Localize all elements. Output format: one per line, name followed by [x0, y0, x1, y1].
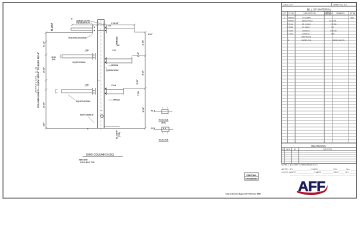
svg-text:L4X4X1/4: L4X4X1/4 [302, 30, 310, 32]
svg-text:(W8X31 COL. C-3): (W8X31 COL. C-3) [35, 66, 37, 93]
svg-text:PL 1/4X4: PL 1/4X4 [302, 24, 311, 26]
svg-text:PC MK: PC MK [289, 13, 295, 15]
svg-text:CUST. APPD. ____________ DATE: CUST. APPD. ____________ DATE ________ R… [282, 171, 358, 174]
svg-text:2′-8″: 2′-8″ [137, 79, 139, 84]
svg-text:1′-1″: 1′-1″ [43, 41, 45, 47]
svg-text:JOB No. 7177: JOB No. 7177 [283, 4, 293, 6]
svg-text:3′-0″: 3′-0″ [43, 102, 45, 108]
svg-text:3′-0″: 3′-0″ [43, 67, 45, 73]
svg-text:(NTS): (NTS) [162, 122, 166, 124]
svg-text:W8X24: W8X24 [113, 100, 120, 102]
svg-text:W8X24: W8X24 [117, 35, 119, 44]
svg-text:W/ (4) 3/4″X2-1/4″ A325N B.: W/ (4) 3/4″X2-1/4″ A325N B. [76, 100, 91, 103]
svg-text:7 1/2: 7 1/2 [112, 50, 116, 52]
svg-text:W8X31: W8X31 [288, 17, 295, 19]
svg-text:1′-10 5/8″: 1′-10 5/8″ [111, 23, 119, 25]
svg-text:W8X31: W8X31 [288, 21, 294, 23]
svg-text:PL3/8: PL3/8 [289, 27, 294, 29]
svg-text:FT - IN: FT - IN [326, 14, 332, 16]
svg-text:10″: 10″ [43, 122, 45, 126]
svg-text:DECAL: DECAL [247, 174, 258, 177]
svg-text:(2) Ø13/16 HOLES: (2) Ø13/16 HOLES [106, 70, 119, 72]
svg-text:EL. 111′-4″: EL. 111′-4″ [51, 23, 53, 31]
svg-text:7 1/2: 7 1/2 [138, 91, 140, 96]
svg-text:3′-4″: 3′-4″ [143, 70, 145, 75]
svg-text:2′-8″: 2′-8″ [143, 107, 145, 112]
svg-text:City of America Approved Fabri: City of America Approved Fabricator #807 [226, 192, 262, 195]
svg-text:DWG COLUMN 3 (SC): DWG COLUMN 3 (SC) [86, 152, 114, 156]
svg-text:SHOP BOLTS: SHOP BOLTS [302, 37, 312, 39]
svg-text:DRAWING: DRAWING [246, 178, 259, 181]
svg-text:0′-8 5/8: 0′-8 5/8 [330, 30, 337, 32]
svg-text:PL1/4: PL1/4 [289, 24, 294, 26]
svg-text:6: 6 [71, 19, 72, 21]
svg-text:3/4X2-1/4: 3/4X2-1/4 [302, 40, 313, 42]
svg-text:L4X4X1/4: L4X4X1/4 [302, 34, 310, 36]
svg-text:2′-0″: 2′-0″ [138, 52, 140, 57]
svg-text:7/16: 7/16 [85, 85, 88, 87]
svg-text:W/ (2) 3/4″ØX2-1/4″ A325N (B): W/ (2) 3/4″ØX2-1/4″ A325N (B) [69, 37, 87, 40]
svg-text:7/16: 7/16 [85, 50, 88, 52]
svg-text:WT EA: WT EA [350, 12, 356, 15]
svg-text:COLUMN LINE 3 — ELEV. 100′-0″: COLUMN LINE 3 — ELEV. 100′-0″ TO ELEV. 1… [38, 52, 40, 108]
svg-text:(TYP.): (TYP.) [119, 132, 121, 137]
svg-text:4 5/8: 4 5/8 [331, 34, 335, 36]
svg-text:NOTES: 1. ALL STEEL TO BE ASTM: NOTES: 1. ALL STEEL TO BE ASTM A36 U.N.O… [282, 164, 319, 167]
svg-text:(A-3): (A-3) [52, 58, 56, 61]
svg-text:L4X4: L4X4 [289, 30, 294, 32]
svg-text:PL B: PL B [151, 128, 156, 130]
svg-text:DESCRIPTION: DESCRIPTION [304, 13, 316, 15]
svg-text:BILL OF MATERIAL: BILL OF MATERIAL [307, 7, 332, 11]
svg-text:A325N H.S.BOLTS: A325N H.S.BOLTS [333, 39, 345, 42]
svg-text:17′-0 5/8: 17′-0 5/8 [329, 21, 337, 23]
svg-text:W8X31X16′-9: W8X31X16′-9 [302, 21, 313, 23]
svg-text:11 5/8: 11 5/8 [143, 41, 145, 46]
svg-text:BASE PL 3/4X9X0′-11″: BASE PL 3/4X9X0′-11″ [80, 114, 94, 117]
svg-text:1′-2 5/8: 1′-2 5/8 [331, 24, 337, 26]
svg-text:DESCRIPTION: DESCRIPTION [323, 149, 333, 151]
svg-text:APPD. BY ____________ DATE ___: APPD. BY ____________ DATE __________ P.… [282, 168, 358, 171]
svg-text:L4X4: L4X4 [289, 34, 294, 36]
svg-text:SHEET No. E-1: SHEET No. E-1 [333, 4, 348, 6]
svg-text:4′-0″: 4′-0″ [148, 34, 153, 36]
svg-text:W8X24: W8X24 [111, 65, 119, 67]
svg-text:PL A: PL A [112, 84, 117, 87]
svg-text:COLUMN: COLUMN [302, 17, 311, 19]
svg-text:REMARKS: REMARKS [336, 12, 345, 15]
svg-text:____ ______ _____ ________ ___: ____ ______ _____ ________ ____ [288, 175, 359, 177]
svg-text:S.P.S. AS-1 TYP.: S.P.S. AS-1 TYP. [80, 161, 95, 164]
svg-text:W/ (2) 3/4″X2-1/4″ A325N B.: W/ (2) 3/4″X2-1/4″ A325N B. [73, 61, 86, 64]
svg-text:PL 3/8X4: PL 3/8X4 [302, 27, 310, 29]
svg-text:PL A: PL A [151, 110, 156, 113]
svg-text:QTY: QTY [283, 13, 287, 15]
